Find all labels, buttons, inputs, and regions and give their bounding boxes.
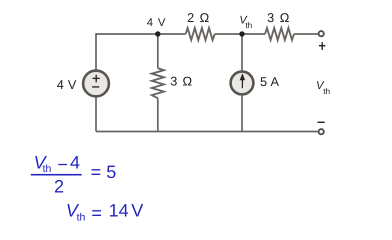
svg-text:2: 2 <box>54 177 64 197</box>
svg-text:Ω: Ω <box>183 74 193 88</box>
svg-text:3: 3 <box>170 74 177 88</box>
voltage source plus <box>92 75 100 87</box>
voltage source V1 circle <box>83 71 109 97</box>
wire Vth vertical upper (node to current source) <box>241 34 243 71</box>
svg-text:−: − <box>57 154 68 174</box>
wire left vertical upper <box>95 33 97 69</box>
svg-text:5: 5 <box>260 75 267 89</box>
svg-text:th: th <box>245 21 252 30</box>
terminal top right <box>319 31 324 36</box>
wire left vertical lower <box>95 97 97 131</box>
svg-text:=: = <box>91 203 102 223</box>
resistor R 2ohm horizontal <box>186 28 215 40</box>
svg-text:A: A <box>271 75 280 89</box>
svg-text:Ω: Ω <box>280 11 290 25</box>
label minus terminal <box>318 121 325 123</box>
svg-text:V: V <box>68 78 77 92</box>
wire top-left horizontal <box>96 33 186 35</box>
wire top right to terminal <box>294 33 318 35</box>
current source arrow <box>241 76 243 88</box>
svg-text:th: th <box>323 87 330 96</box>
svg-text:V: V <box>158 17 166 29</box>
wire middle vertical upper (node to R) <box>157 34 159 68</box>
svg-text:5: 5 <box>106 162 116 182</box>
wire top middle (2ohm to Vth node to 3ohm) <box>215 33 265 35</box>
resistor R 3ohm horizontal <box>265 28 294 40</box>
svg-text:Ω: Ω <box>200 11 210 25</box>
wire bottom horizontal <box>96 131 318 133</box>
equation line 2: Vth = 14 V <box>66 201 143 224</box>
svg-text:3: 3 <box>267 11 274 25</box>
node dot 4V <box>155 31 160 36</box>
svg-text:th: th <box>77 211 86 223</box>
svg-text:4: 4 <box>147 17 153 29</box>
wire Vth vertical lower (current source to bottom) <box>241 96 243 132</box>
svg-text:V: V <box>131 201 143 221</box>
node dot Vth <box>239 31 244 36</box>
current source I1 circle <box>231 72 254 95</box>
terminal bottom right <box>319 129 324 134</box>
wire middle vertical lower (R to bottom) <box>157 98 159 131</box>
svg-text:14: 14 <box>109 201 129 221</box>
svg-text:4: 4 <box>70 152 80 172</box>
equation line 1: (Vth - 4)/2 = 5 <box>31 152 116 196</box>
label plus terminal <box>319 42 326 50</box>
resistor R 3ohm vertical <box>152 68 164 98</box>
svg-text:=: = <box>91 162 102 182</box>
svg-text:th: th <box>43 163 52 175</box>
svg-text:2: 2 <box>187 11 194 25</box>
svg-text:4: 4 <box>57 78 64 92</box>
